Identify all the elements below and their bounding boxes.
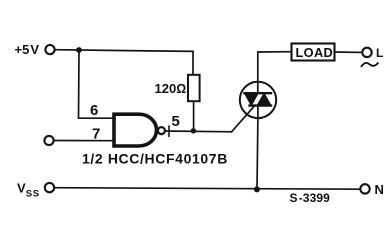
- svg-text:5: 5: [172, 113, 180, 130]
- svg-text:6: 6: [90, 102, 98, 119]
- triac Q1 symbol: [245, 93, 272, 105]
- svg-text:LOAD: LOAD: [296, 45, 334, 60]
- junction resistor/output node: [191, 128, 196, 133]
- wire resistor top lead: [192, 51, 194, 74]
- wire triac cathode bottom lead: [256, 106, 259, 189]
- junction +5V node: [76, 47, 82, 53]
- ac tilde mark: [362, 63, 378, 66]
- pin 5 tick: [168, 126, 170, 136]
- terminal +5V: [45, 45, 54, 54]
- wire triac gate diagonal: [232, 105, 255, 132]
- wire resistor bottom lead: [193, 101, 195, 131]
- svg-text:+5 V: +5 V: [15, 42, 40, 57]
- terminal input 7: [44, 136, 53, 145]
- triac Q1 circle: [240, 82, 276, 118]
- wire triac vertical through: [257, 81, 259, 93]
- nand gate U1 output bubble: [158, 127, 165, 134]
- terminal L: [362, 48, 371, 57]
- resistor 120ohm body: [188, 75, 200, 101]
- wire gate output: [165, 130, 231, 133]
- wire junction to pin6: [79, 50, 114, 118]
- nand gate U1 body: [114, 114, 157, 146]
- svg-text:L: L: [376, 46, 383, 60]
- terminal N: [360, 184, 369, 193]
- svg-text:N: N: [375, 182, 384, 197]
- svg-text:S -3399: S -3399: [290, 191, 331, 205]
- svg-text:SS: SS: [26, 189, 40, 200]
- wire bottom rail: [54, 188, 360, 190]
- svg-text:V: V: [17, 181, 26, 196]
- junction bottom node: [254, 186, 260, 192]
- wire load to L terminal: [335, 51, 362, 53]
- svg-text:120Ω: 120Ω: [155, 81, 187, 96]
- wire triac anode top lead: [258, 52, 291, 82]
- wire +5V rail: [55, 50, 193, 52]
- terminal VSS: [45, 183, 54, 192]
- label VSS: [17, 181, 40, 200]
- load box: [292, 44, 335, 61]
- svg-text:1/2 HCC/HCF40107B: 1/2 HCC/HCF40107B: [82, 151, 228, 167]
- wire input 7 to gate: [54, 140, 113, 142]
